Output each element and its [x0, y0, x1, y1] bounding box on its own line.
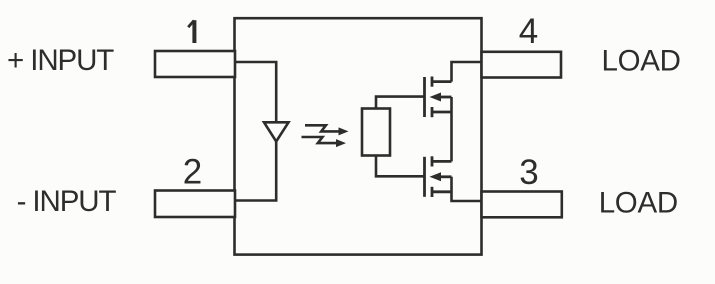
svg-text:- INPUT: - INPUT — [17, 185, 117, 218]
Q1 source channel tick — [431, 107, 434, 117]
Q1 body arrow — [430, 93, 442, 102]
pin 3 lead — [482, 192, 562, 218]
Q2 drain channel tick — [431, 156, 434, 166]
wire: photodiode top to Q1 gate — [376, 97, 425, 109]
Q2 drain stub — [432, 160, 452, 163]
wire: LED cathode to pin 2 — [235, 141, 276, 201]
wire: pin 1 to LED anode — [235, 62, 276, 122]
Q1 body stub — [439, 96, 452, 99]
svg-text:2: 2 — [183, 152, 202, 191]
svg-text:LOAD: LOAD — [602, 45, 681, 78]
light arrow 2 — [302, 137, 347, 147]
Q2 body arrow — [430, 172, 442, 181]
pin 4 lead — [482, 52, 562, 78]
Q2 source channel tick — [431, 187, 434, 197]
light arrow 1 — [305, 125, 349, 135]
svg-text:3: 3 — [519, 153, 538, 192]
Q1 source stub — [432, 111, 452, 114]
MOSFET Q2 — [425, 156, 452, 197]
photodiode array PD1 — [362, 109, 390, 156]
svg-text:+ INPUT: + INPUT — [7, 44, 114, 77]
pin 1 number — [188, 20, 194, 43]
pin 2 lead — [155, 191, 235, 218]
svg-text:LOAD: LOAD — [599, 187, 678, 220]
wire: Q1 source to Q2 drain — [450, 97, 453, 161]
Q2 source stub — [432, 190, 452, 193]
wire: photodiode bottom to Q2 gate — [376, 156, 425, 177]
LED D1 — [264, 122, 289, 141]
Q1 gate bar — [423, 77, 426, 117]
Q2 gate bar — [423, 157, 426, 197]
MOSFET Q1 — [425, 77, 452, 118]
package body U1 outline — [235, 18, 482, 254]
Q2 body stub — [439, 175, 452, 178]
wire: Q2 source to pin 3 — [452, 177, 482, 201]
svg-text:4: 4 — [519, 12, 538, 51]
wire: Q1 drain to pin 4 — [452, 62, 482, 82]
Q1 drain channel tick — [431, 77, 434, 87]
pin 1 lead — [155, 51, 235, 77]
Q1 drain stub — [432, 80, 452, 83]
